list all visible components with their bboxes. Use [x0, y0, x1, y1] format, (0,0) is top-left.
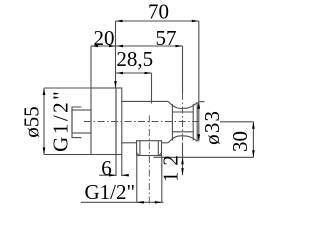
- svg-text:20: 20: [94, 26, 115, 50]
- svg-text:G1/2": G1/2": [85, 180, 136, 204]
- svg-text:12: 12: [158, 149, 182, 182]
- svg-text:57: 57: [156, 26, 177, 50]
- svg-text:G1/2": G1/2": [49, 89, 73, 152]
- svg-text:ø33: ø33: [200, 110, 224, 145]
- svg-text:30: 30: [228, 131, 252, 152]
- svg-text:ø55: ø55: [20, 106, 44, 138]
- svg-text:6: 6: [101, 156, 112, 180]
- svg-text:28,5: 28,5: [116, 47, 153, 71]
- svg-text:70: 70: [148, 0, 169, 24]
